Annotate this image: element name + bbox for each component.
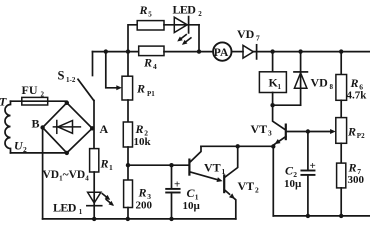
junction dots top bus [104, 49, 108, 53]
svg-text:300: 300 [348, 174, 365, 186]
svg-text:R: R [136, 82, 145, 96]
diode VD7 [243, 45, 257, 59]
fuse FU2 [22, 97, 48, 105]
svg-text:4: 4 [153, 62, 157, 71]
svg-text:2: 2 [255, 186, 259, 195]
svg-text:T: T [0, 95, 7, 109]
transformer T secondary [5, 101, 10, 153]
bridge rectifier VD1~VD4 [43, 103, 93, 153]
svg-text:4.7k: 4.7k [347, 90, 368, 102]
svg-text:7: 7 [256, 34, 260, 43]
transistor VT2 [224, 146, 238, 219]
svg-text:R: R [143, 56, 152, 70]
svg-text:10µ: 10µ [183, 200, 201, 212]
svg-text:PA: PA [214, 47, 229, 59]
wire K1/VD8 junction [273, 104, 301, 106]
junction dots right rail [306, 214, 310, 218]
junction dot R2-R3 node [126, 163, 130, 167]
svg-text:R: R [100, 157, 109, 171]
svg-text:VD: VD [237, 27, 255, 41]
svg-text:VT: VT [238, 179, 255, 193]
wire bus R4 to PA [164, 51, 213, 53]
wire switch to node A [93, 101, 95, 149]
wire R5 to LED2 [164, 24, 199, 26]
wire R7 to rail [340, 188, 342, 216]
wire RP1 to R2 [127, 100, 129, 122]
svg-text:R: R [135, 122, 144, 136]
junction dot C1 top [169, 163, 173, 167]
wire R2 to R3 [127, 147, 129, 180]
svg-text:1: 1 [79, 208, 83, 216]
svg-text:R: R [347, 125, 356, 139]
resistor R4 [139, 46, 164, 56]
ammeter PA [213, 42, 231, 60]
svg-text:VD: VD [311, 76, 329, 90]
junction dot VT3 emitter [271, 144, 275, 148]
wire transformer top to bridge [11, 101, 67, 103]
junction dot C2 top [306, 129, 310, 133]
wire R6 to RP2 [340, 100, 342, 117]
svg-text:2: 2 [198, 10, 202, 18]
switch S1-2 [78, 52, 94, 101]
wire VT3 base to RP2 wiper [286, 129, 336, 134]
wire RP1 wiper from bus [106, 52, 122, 91]
wire junction to VT3 collector [273, 105, 286, 130]
svg-text:R: R [350, 76, 359, 90]
svg-text:A: A [100, 122, 109, 136]
resistor R3 [124, 180, 133, 208]
svg-text:B: B [32, 117, 40, 131]
svg-text:3: 3 [268, 129, 272, 138]
resistor R5 [137, 21, 164, 30]
wire RP2 to R7 [340, 143, 342, 163]
svg-text:1: 1 [109, 163, 113, 172]
wire transformer bottom to bridge bottom vertex [11, 152, 67, 154]
left bottom rail [43, 218, 236, 220]
svg-text:200: 200 [136, 200, 153, 212]
junction dots bridge vertices [65, 101, 69, 105]
svg-text:VD1~VD4: VD1~VD4 [43, 169, 90, 183]
svg-text:5: 5 [148, 11, 152, 19]
transistor VT1 [189, 146, 222, 182]
wire LED2 to bus [198, 25, 200, 52]
junction dot K1 bottom [270, 103, 274, 107]
svg-text:1-2: 1-2 [66, 76, 76, 84]
wire darlington collectors to VT3 emitter [201, 145, 273, 147]
junction dot VT2 collector [236, 144, 240, 148]
svg-text:VT: VT [204, 161, 221, 175]
wire node R2/R3 to C1 and VT1 base [128, 164, 189, 166]
resistor R6 [336, 52, 347, 101]
svg-text:+: + [174, 179, 180, 191]
wire R1 to LED1 [93, 172, 95, 219]
wire top bus left segment [93, 51, 139, 53]
right bottom rail [273, 215, 370, 217]
svg-text:1: 1 [278, 83, 282, 91]
svg-text:10µ: 10µ [284, 178, 302, 190]
capacitor C2 [301, 132, 314, 216]
wire bus right segment [253, 51, 370, 53]
svg-text:+: + [310, 160, 316, 172]
capacitor C1 [166, 165, 179, 219]
svg-text:8: 8 [330, 83, 334, 91]
wire VT3 emitter to right rail [272, 146, 274, 216]
junction dots left rail [92, 217, 96, 221]
svg-text:R: R [138, 186, 147, 200]
wire R3 to rail [127, 208, 129, 219]
relay coil K1 [259, 52, 286, 106]
svg-text:P1: P1 [147, 90, 155, 98]
wire node B to bottom rail [42, 128, 44, 219]
LED LED1 [87, 192, 114, 206]
svg-text:R: R [139, 3, 148, 17]
svg-text:VT: VT [251, 122, 268, 136]
svg-text:P2: P2 [357, 132, 365, 140]
potentiometer RP2 [336, 118, 347, 144]
svg-text:10k: 10k [134, 136, 152, 148]
svg-text:FU: FU [22, 83, 38, 97]
svg-text:2: 2 [41, 91, 45, 99]
svg-text:R: R [348, 161, 357, 175]
svg-text:LED: LED [173, 3, 197, 17]
diode VD8 [294, 52, 307, 106]
resistor R1 [90, 149, 99, 172]
svg-text:S: S [58, 69, 65, 83]
transistor VT3 [273, 125, 286, 147]
svg-text:LED: LED [53, 201, 77, 215]
resistor R2 [123, 122, 132, 147]
LED LED2 [174, 17, 191, 45]
resistor R7 [337, 163, 346, 188]
wire PA to VD7 [232, 51, 244, 53]
svg-text:1: 1 [222, 167, 226, 176]
potentiometer RP1 [122, 52, 133, 100]
wire branch left vertical to R5 [128, 25, 137, 52]
svg-text:2: 2 [23, 145, 27, 154]
